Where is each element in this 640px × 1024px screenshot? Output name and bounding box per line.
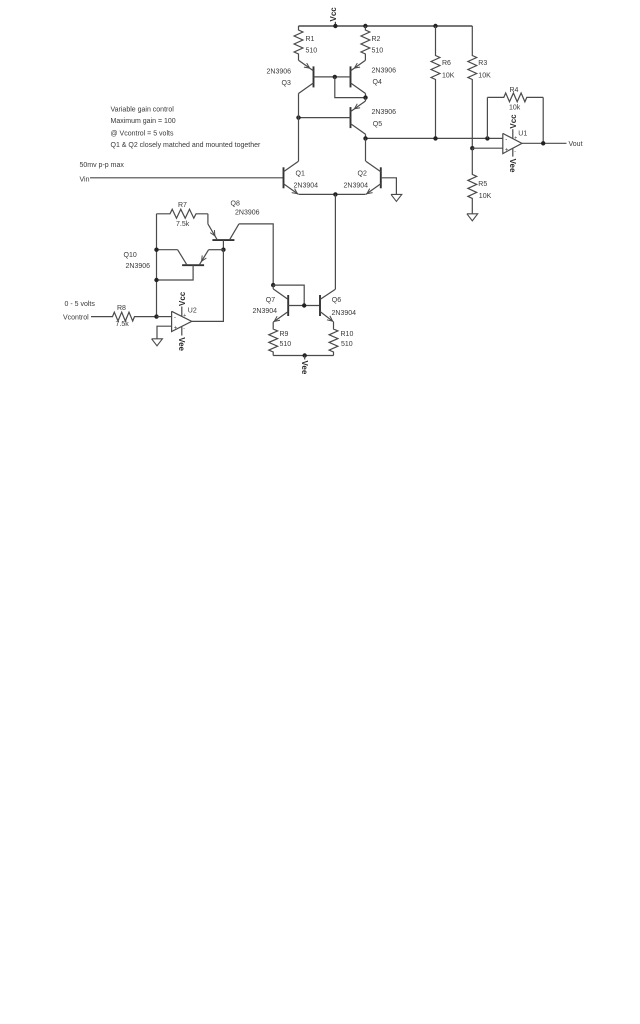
resistor R4 bbox=[487, 87, 543, 111]
wire bottom rail bbox=[273, 355, 333, 357]
node Q10 collector bbox=[154, 248, 158, 252]
svg-text:-: - bbox=[174, 315, 176, 321]
svg-text:R9: R9 bbox=[280, 331, 289, 338]
op-amp U1 bbox=[503, 114, 528, 173]
note 50mv bbox=[80, 162, 125, 169]
wire Q6 emitter lead bbox=[333, 322, 335, 329]
transistor Q6 bbox=[320, 289, 356, 322]
wire R7 to Q8 bbox=[207, 214, 209, 224]
svg-text:Q6: Q6 bbox=[332, 297, 341, 304]
transistor Q7 bbox=[253, 289, 289, 322]
resistor R8 bbox=[91, 305, 157, 328]
resistor R3 bbox=[468, 26, 491, 148]
svg-text:10K: 10K bbox=[442, 73, 455, 80]
node U1 output bbox=[541, 141, 545, 145]
svg-text:2N3904: 2N3904 bbox=[253, 308, 278, 315]
node R6 bottom bbox=[433, 136, 437, 140]
ground U2 plus bbox=[152, 339, 163, 346]
wire Q4 base bbox=[335, 76, 351, 78]
wire Q2 base to ground bbox=[381, 178, 397, 195]
svg-text:R1: R1 bbox=[306, 36, 315, 43]
svg-text:Q1 & Q2 closely matched and mo: Q1 & Q2 closely matched and mounted toge… bbox=[111, 142, 261, 149]
power Vcc bbox=[329, 7, 338, 28]
wire U1 plus input bbox=[472, 147, 503, 149]
svg-text:@ Vcontrol = 5 volts: @ Vcontrol = 5 volts bbox=[111, 131, 174, 138]
node R3 R5 junction bbox=[470, 146, 474, 150]
wire Q3 base bbox=[314, 76, 335, 78]
svg-text:Vin: Vin bbox=[80, 177, 90, 184]
svg-text:+: + bbox=[183, 313, 186, 319]
svg-text:10K: 10K bbox=[479, 193, 492, 200]
label Vout bbox=[569, 141, 583, 148]
svg-text:R6: R6 bbox=[442, 60, 451, 67]
resistor R5 bbox=[468, 148, 492, 214]
svg-text:0 - 5 volts: 0 - 5 volts bbox=[65, 301, 96, 308]
wire R4 right leg bbox=[542, 97, 544, 143]
svg-text:510: 510 bbox=[372, 48, 384, 55]
svg-text:Q2: Q2 bbox=[358, 171, 367, 178]
power Vee bbox=[300, 356, 309, 375]
wire Q7 Q6 bases bbox=[288, 305, 320, 307]
svg-text:Q3: Q3 bbox=[282, 80, 291, 87]
resistor R7 bbox=[157, 202, 208, 228]
note line2 bbox=[111, 118, 176, 125]
svg-text:510: 510 bbox=[306, 48, 318, 55]
resistor R2 bbox=[361, 26, 383, 60]
svg-text:7.5k: 7.5k bbox=[116, 321, 130, 328]
wire Q3-Q1 collector bbox=[298, 94, 300, 162]
svg-text:2N3906: 2N3906 bbox=[372, 67, 397, 74]
svg-text:Q4: Q4 bbox=[373, 79, 382, 86]
svg-text:Q1: Q1 bbox=[296, 171, 305, 178]
svg-text:Vout: Vout bbox=[569, 141, 583, 148]
node R8 U2 bbox=[154, 314, 158, 318]
wire tail bbox=[334, 194, 336, 289]
node R4 left bbox=[485, 136, 489, 140]
svg-text:Q10: Q10 bbox=[124, 252, 137, 259]
svg-text:R10: R10 bbox=[341, 331, 354, 338]
node Q10 base bbox=[154, 278, 158, 282]
svg-text:Vcc: Vcc bbox=[178, 291, 187, 306]
wire Q4 collector lead bbox=[365, 94, 367, 98]
node bases bbox=[302, 303, 306, 307]
node Vee bbox=[303, 353, 307, 357]
note line4 bbox=[111, 142, 261, 149]
svg-text:R7: R7 bbox=[178, 202, 187, 209]
svg-text:Vcontrol: Vcontrol bbox=[63, 315, 89, 322]
svg-text:2N3906: 2N3906 bbox=[126, 263, 151, 270]
svg-text:Vee: Vee bbox=[177, 337, 186, 351]
wire Q5 base bbox=[299, 117, 351, 119]
wire summing node bbox=[366, 137, 503, 139]
wire Vin bbox=[90, 177, 284, 179]
note line3 bbox=[111, 131, 174, 138]
ground under R5 bbox=[467, 214, 478, 221]
transistor Q8 bbox=[208, 200, 260, 249]
resistor R9 bbox=[269, 329, 291, 356]
note line1 bbox=[111, 107, 175, 114]
wire U1 output bbox=[522, 142, 567, 144]
svg-text:10k: 10k bbox=[509, 104, 521, 111]
svg-text:50mv p-p max: 50mv p-p max bbox=[80, 162, 125, 169]
wire Q5 collector lead bbox=[365, 134, 367, 138]
svg-text:Vcc: Vcc bbox=[329, 7, 338, 22]
wire Q7 collector lead bbox=[272, 285, 274, 289]
ground Q2 base bbox=[391, 194, 402, 201]
svg-text:510: 510 bbox=[280, 341, 292, 348]
wire left loop vertical bbox=[156, 214, 158, 317]
wire base tie to Q4 collector bbox=[335, 77, 366, 98]
svg-text:10K: 10K bbox=[478, 73, 491, 80]
node Q5 base tap bbox=[296, 115, 300, 119]
svg-text:U2: U2 bbox=[188, 307, 197, 314]
svg-text:2N3904: 2N3904 bbox=[344, 183, 369, 190]
svg-text:2N3906: 2N3906 bbox=[235, 210, 260, 217]
op-amp U2 bbox=[172, 291, 197, 351]
node Q8 Q7 collectors bbox=[271, 283, 275, 287]
resistor R1 bbox=[294, 26, 317, 60]
node Q4 collector bbox=[363, 95, 367, 99]
svg-text:Maximum gain = 100: Maximum gain = 100 bbox=[111, 118, 176, 125]
svg-text:Q8: Q8 bbox=[231, 200, 240, 207]
wire Q1 emitter bbox=[299, 193, 336, 195]
label Vcontrol bbox=[63, 315, 89, 322]
transistor Q1 bbox=[284, 161, 319, 194]
svg-text:Vcc: Vcc bbox=[509, 114, 518, 129]
node Q5Q2 collectors bbox=[363, 136, 367, 140]
svg-text:+: + bbox=[174, 325, 178, 331]
transistor Q2 bbox=[344, 161, 381, 194]
wire to bases bbox=[273, 285, 304, 305]
svg-text:Vee: Vee bbox=[300, 361, 309, 375]
note 0-5 volts bbox=[65, 301, 96, 308]
svg-text:R3: R3 bbox=[478, 60, 487, 67]
wire Vcc rail bbox=[299, 25, 473, 27]
wire Q10 emitter bbox=[209, 249, 224, 251]
wire Q10 collector bbox=[157, 249, 178, 251]
svg-text:-: - bbox=[505, 137, 507, 143]
node R2 top bbox=[363, 24, 367, 28]
wire R8 to U2 bbox=[157, 316, 172, 318]
svg-text:Variable gain control: Variable gain control bbox=[111, 107, 175, 114]
svg-text:R2: R2 bbox=[372, 36, 381, 43]
transistor Q4 bbox=[351, 60, 397, 93]
svg-text:R4: R4 bbox=[510, 87, 519, 94]
svg-text:+: + bbox=[514, 135, 517, 141]
wire Q8 collector bbox=[239, 224, 273, 285]
svg-text:2N3906: 2N3906 bbox=[267, 69, 292, 76]
node Q3Q4 bases bbox=[333, 75, 337, 79]
wire Q2 emitter bbox=[335, 193, 365, 195]
svg-text:2N3904: 2N3904 bbox=[294, 183, 319, 190]
transistor Q10 bbox=[124, 250, 209, 280]
svg-text:Vee: Vee bbox=[508, 159, 517, 173]
wire Q5 emitter lead bbox=[365, 98, 367, 101]
resistor R10 bbox=[329, 329, 353, 356]
svg-text:7.5k: 7.5k bbox=[176, 221, 190, 228]
wire R4 left leg bbox=[486, 97, 488, 138]
wire U2 out riser bbox=[192, 250, 224, 322]
transistor Q3 bbox=[267, 60, 314, 93]
svg-text:2N3904: 2N3904 bbox=[332, 310, 357, 317]
svg-text:+: + bbox=[505, 147, 509, 153]
wire Q7 emitter lead bbox=[272, 322, 274, 328]
transistor Q5 bbox=[351, 101, 397, 134]
wire U2 plus to ground bbox=[157, 326, 172, 339]
svg-text:Q5: Q5 bbox=[373, 121, 382, 128]
svg-text:R5: R5 bbox=[478, 181, 487, 188]
svg-text:510: 510 bbox=[341, 341, 353, 348]
svg-text:2N3906: 2N3906 bbox=[372, 109, 397, 116]
svg-text:Q7: Q7 bbox=[266, 297, 275, 304]
node emitters bbox=[333, 192, 337, 196]
resistor R6 bbox=[431, 26, 455, 138]
wire Q2 collector lead bbox=[365, 138, 367, 161]
node R6 top bbox=[433, 24, 437, 28]
svg-text:R8: R8 bbox=[117, 305, 126, 312]
node Q8 base bbox=[221, 248, 225, 252]
svg-text:U1: U1 bbox=[518, 130, 527, 137]
label Vin bbox=[80, 177, 90, 184]
